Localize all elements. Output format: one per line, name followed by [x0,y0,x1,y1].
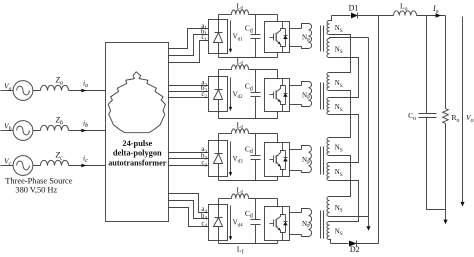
wire b1 from box to bridge 1 [169,35,209,56]
diode symbol inside bridge 1 [218,20,220,33]
current arrow ic [81,164,86,168]
IGBT symbol module 1 [270,37,274,39]
inductor Zc [41,160,69,165]
wire bridge 3 top stub [218,134,220,141]
wire module 4 top rail right [249,198,278,200]
wire D2 to riser [357,243,379,245]
diode symbol inside bridge 3 [218,141,220,154]
svg-text:Vo: Vo [466,113,474,124]
wire series link odd 2 [330,91,351,138]
wire source to Zb [33,130,41,132]
inductor Lf module 3 [232,129,249,134]
rectifier bridge box module 1 [209,20,228,54]
wire bridge 1 bottom stub [218,54,220,58]
wire series link odd 3 [330,156,351,197]
inverter box module 4 [265,207,290,241]
wire inverter 2 bottom stub [277,112,279,119]
svg-text:Vd4: Vd4 [233,219,244,229]
wire rectifier link riser [378,16,380,244]
wire phase c source lead [1,165,14,167]
voltage arrow Vd4 [230,206,232,239]
wire module 3 top rail left [219,133,232,135]
diode symbol inside bridge 2 [218,77,220,90]
diode symbol inside bridge 4 [218,205,220,218]
secondary winding Ns 6 [327,163,330,181]
wire inverter 4 top stub [277,199,279,207]
wire b4 from box to bridge 4 [169,201,209,219]
wire module 2 top rail right [249,69,278,71]
svg-text:D2: D2 [350,245,360,254]
wire negative rail to D2 [331,243,349,245]
inverter box module 2 [265,79,290,112]
wire D1 to Lo [358,15,394,17]
wire phase a source lead [1,90,14,92]
svg-text:NS: NS [335,168,343,178]
wire bridge 4 bottom stub [218,241,220,244]
inductor Za [41,85,69,90]
IGBT symbol module 2 [270,94,274,96]
AC source Va [13,81,33,101]
wire inverter 2 to Np upper [290,85,302,87]
rectifier bridge box module 3 [209,141,228,177]
svg-text:ib: ib [83,118,88,129]
wire Ro branch top [445,16,447,109]
delta-polygon winding symbol [108,72,165,133]
wire tap bus down [368,38,370,229]
wire Ns2 top tap [330,38,369,39]
IGBT symbol module 4 [270,223,274,225]
wire source to Zc [33,165,41,167]
autotransformer block [106,43,169,222]
svg-text:Zb: Zb [56,116,63,127]
wire inverter 3 to Np upper [290,149,302,151]
svg-text:NS: NS [335,24,343,34]
svg-text:Cd: Cd [245,24,253,35]
transformer core module 2 [320,83,322,110]
svg-text:NP: NP [302,220,310,230]
wire series link even 3 [330,181,359,222]
primary winding Np module 3 [302,146,309,150]
wire Zb to box with current arrow ib [69,130,106,132]
wire Za to box with current arrow ia [69,90,106,92]
voltage arrow Vd2 [230,78,232,110]
rectifier bridge box module 2 [209,77,228,112]
wire inverter 4 to Np upper [290,212,302,214]
wire inverter 1 top stub [277,15,279,22]
svg-text:ia: ia [83,78,88,89]
AC source Vc [13,156,33,176]
wire bridge 2 bottom stub [218,112,220,119]
svg-text:Three-Phase Source: Three-Phase Source [5,177,72,186]
svg-text:380 V,50 Hz: 380 V,50 Hz [15,186,57,195]
wire series link even 1 [330,58,359,98]
wire module 3 top rail right [249,133,278,135]
wire source to Za [33,90,41,92]
transformer core module 3 [320,147,322,175]
wire a1 from box to bridge 1 [169,29,209,49]
capacitor Cd module 2 [255,70,257,93]
current arrow ia [81,89,86,93]
voltage arrow Vd3 [230,142,232,175]
svg-text:NS: NS [335,45,343,55]
wire c2 from box to bridge 2 [169,97,209,99]
primary winding Np module 2 [302,82,309,86]
svg-text:D1: D1 [349,4,359,13]
wire bridge 3 bottom stub [218,177,220,181]
svg-text:NP: NP [302,34,310,44]
secondary winding Ns 1 [327,21,330,35]
wire inverter 1 bottom stub [277,53,279,58]
wire a3 from box to bridge 3 [169,152,209,154]
wire module 1 top rail right [249,14,278,16]
svg-text:Zc: Zc [56,151,63,162]
current arrow Io [436,13,442,17]
wire inverter 1 to Np upper [290,28,302,30]
svg-text:Io: Io [432,4,439,15]
inverter box module 1 [265,22,290,53]
svg-text:Lf: Lf [237,245,244,256]
wire Vo sense line [462,17,464,205]
wire a4 from box to bridge 4 [169,194,209,213]
inductor Lo [394,11,417,16]
primary winding Np module 4 [302,209,309,213]
voltage arrow Vd1 [230,21,232,52]
diode D2 [349,241,357,247]
inductor Zb [41,125,69,130]
wire inverter 4 bottom stub [277,241,279,244]
wire module 3 bottom rail [219,180,278,182]
secondary winding Ns 4 [327,98,330,115]
svg-text:NS: NS [335,144,343,154]
wire Zc to box with current arrow ic [69,165,106,167]
svg-text:NS: NS [335,79,343,89]
inductor Lf module 2 [232,65,249,70]
wire c3 from box to bridge 3 [169,165,209,167]
wire inverter 1 to Np lower [290,46,302,48]
svg-text:NS: NS [335,227,343,237]
wire bridge 2 top stub [218,70,220,77]
wire inverter 3 bottom stub [277,177,279,181]
wire inverter 3 top stub [277,134,279,143]
svg-text:Za: Za [56,76,63,87]
wire bridge 1 top stub [218,15,220,20]
wire inverter 2 to Np lower [290,104,302,106]
svg-text:24-pulse: 24-pulse [122,139,152,148]
capacitor Co [419,113,437,115]
wire b3 from box to bridge 3 [169,158,209,160]
secondary winding Ns 8 [327,222,330,240]
svg-text:autotransformer: autotransformer [108,158,167,167]
wire Ns7 bottom to tap bus [330,216,369,218]
diode D1 [351,13,358,19]
wire inverter 3 to Np lower [290,170,302,172]
svg-text:Vd1: Vd1 [233,33,244,43]
wire positive rail to D1 [332,15,351,17]
inductor Lf module 1 [232,10,249,15]
wire Ns1 top to positive rail [330,16,332,21]
svg-text:NS: NS [335,103,343,113]
svg-text:Co: Co [408,111,416,122]
svg-text:NP: NP [302,156,310,166]
svg-text:Cd: Cd [245,82,253,93]
wire c1 from box to bridge 1 [169,41,209,63]
wire Co branch top [426,16,428,114]
wire Lo to output corner with Io arrow [417,15,446,17]
wire series link odd 1 [330,35,351,73]
rectifier bridge box module 4 [209,205,228,241]
wire series link even 2 [330,115,359,163]
svg-text:Ro: Ro [452,113,460,124]
svg-text:Vd2: Vd2 [233,90,244,100]
wire Ns8 bottom to negative rail [330,240,331,244]
arrow Vo [460,202,464,207]
secondary winding Ns 7 [327,197,330,217]
svg-text:delta-polygon: delta-polygon [113,149,162,158]
wire module 1 bottom rail [219,57,278,59]
arrow tap output [366,226,370,231]
wire b2 from box to bridge 2 [169,91,209,93]
wire phase b source lead [1,130,14,132]
secondary winding Ns 3 [327,73,330,91]
inverter box module 3 [265,143,290,177]
wire inverter 2 top stub [277,70,279,79]
primary winding Np module 1 [302,24,309,29]
capacitor Cd module 1 [255,15,257,35]
svg-text:NP: NP [302,91,310,101]
wire module 4 top rail left [219,198,232,200]
AC source Vb [13,121,33,141]
wire inverter 4 to Np lower [290,234,302,236]
svg-text:c4: c4 [201,220,207,229]
wire module 2 top rail left [219,69,232,71]
arrow load return [443,220,447,225]
current arrow ib [81,129,86,133]
svg-text:Vd3: Vd3 [233,155,244,165]
wire Ro branch bottom [445,124,447,223]
IGBT symbol module 3 [270,159,274,161]
wire bridge 4 top stub [218,199,220,205]
wire Co branch bottom [427,118,446,210]
svg-text:Cd: Cd [245,209,253,220]
capacitor Cd module 3 [255,134,257,156]
secondary winding Ns 5 [327,138,330,156]
capacitor Cd module 4 [255,199,257,220]
secondary winding Ns 2 [327,39,330,58]
wire a2 from box to bridge 2 [169,85,209,87]
svg-text:NS: NS [335,204,343,214]
wire module 1 top rail left [219,14,232,16]
resistor Ro [443,109,449,124]
wire c4 from box to bridge 4 [169,208,209,227]
svg-text:Cd: Cd [245,144,253,155]
inductor Lf module 4 [232,194,249,199]
wire module 4 bottom rail [219,243,278,245]
svg-text:ic: ic [83,153,88,164]
wire module 2 bottom rail [219,118,278,120]
transformer core module 1 [320,26,322,52]
transformer core module 4 [320,211,322,239]
